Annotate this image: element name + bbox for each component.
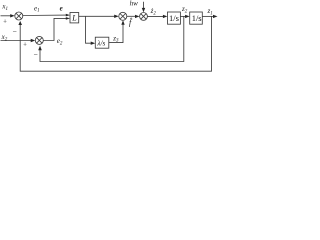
svg-text:L: L: [71, 14, 77, 23]
wire L output to junction A: [79, 15, 117, 17]
arrowhead hw down into junction B: [142, 8, 145, 12]
wire hw down into junction B: [143, 2, 145, 11]
wire e1: S1 to L upper input: [23, 14, 67, 16]
arrowhead z2 feedback up into S4: [38, 46, 42, 51]
svg-text:x1: x1: [1, 3, 8, 12]
svg-text:z2: z2: [181, 5, 188, 14]
wire x1 input: [1, 15, 14, 17]
arrowhead e1 into L: [66, 14, 70, 17]
arrowhead into lambda/s: [91, 42, 96, 45]
svg-text:e1: e1: [34, 4, 40, 13]
arrowhead into junction A: [114, 15, 119, 18]
wire branch down to lambda/s: [86, 16, 93, 43]
wire junction A to junction B: [127, 15, 138, 17]
arrowhead z1 feedback up into S1: [18, 21, 22, 25]
block lambda/s: [95, 37, 109, 48]
wire x2 input: [1, 40, 34, 42]
wire z2 feedback down and left to S4: [40, 16, 184, 61]
wire z3: lambda/s output up into junction A: [109, 23, 123, 43]
svg-text:x2: x2: [1, 33, 8, 42]
wire junction B to integrator 1: [147, 15, 165, 17]
svg-text:+: +: [3, 18, 7, 25]
svg-text:hw: hw: [130, 0, 139, 7]
svg-text:λ/s: λ/s: [96, 39, 105, 47]
svg-text:z1: z1: [207, 7, 213, 16]
svg-text:1/s: 1/s: [192, 13, 202, 23]
wire z1 feedback down and left to S1: [20, 16, 211, 71]
arrowhead e2 into L: [66, 17, 70, 20]
arrowhead into integrator 2: [185, 15, 190, 18]
svg-text:f̂: f̂: [129, 17, 133, 28]
arrowhead x2 into S4: [31, 39, 36, 42]
svg-text:+: +: [23, 41, 27, 48]
arrowhead z3 up into junction A: [121, 20, 124, 25]
summing junction S4: [35, 36, 43, 44]
arrowhead into junction B: [135, 15, 140, 18]
svg-text:−: −: [12, 27, 16, 36]
svg-text:z3: z3: [112, 34, 119, 43]
wire z1 output: [202, 15, 215, 17]
svg-text:e: e: [60, 5, 63, 13]
arrowhead x1 into S1: [10, 14, 15, 17]
wire z2: integrator 1 to integrator 2: [180, 15, 187, 17]
arrowhead into integrator 1: [163, 15, 168, 18]
wire e2: S4 output up to L lower input: [43, 18, 67, 40]
block L: [70, 13, 79, 23]
svg-text:e2: e2: [57, 37, 63, 46]
summing junction B: [140, 13, 148, 21]
summing junction S1: [15, 12, 23, 20]
svg-text:−: −: [33, 50, 37, 59]
svg-text:ż2: ż2: [150, 7, 157, 16]
block integrator 2: [190, 12, 203, 24]
summing junction A: [119, 12, 127, 20]
svg-text:1/s: 1/s: [169, 13, 179, 23]
arrowhead z1 output: [213, 15, 218, 18]
block integrator 1: [168, 12, 181, 24]
